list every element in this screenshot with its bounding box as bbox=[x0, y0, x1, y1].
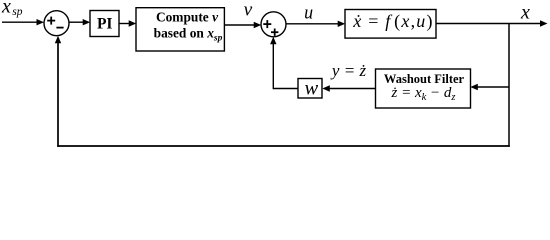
svg-text:ż = xk − dz: ż = xk − dz bbox=[390, 85, 455, 103]
svg-text:Compute v: Compute v bbox=[156, 9, 219, 24]
wire x branch into Washout Filter bbox=[470, 84, 509, 90]
svg-text:ẋ = f (x,u): ẋ = f (x,u) bbox=[352, 11, 433, 32]
wire S2 to plant block bbox=[286, 21, 345, 27]
summing junction S2 bbox=[261, 12, 286, 37]
node x_sp input label bbox=[1, 0, 23, 18]
block Washout Filter bbox=[376, 69, 471, 108]
wire input to summing junction S1 bbox=[2, 19, 44, 25]
summing junction S1 bbox=[44, 11, 69, 36]
junction on x line bbox=[508, 24, 510, 147]
wire PI to Compute block bbox=[119, 20, 136, 26]
svg-text:w: w bbox=[304, 78, 318, 100]
svg-text:x: x bbox=[1, 0, 11, 18]
block w bbox=[298, 78, 322, 100]
svg-text:y = ż: y = ż bbox=[330, 61, 367, 80]
svg-text:PI: PI bbox=[97, 16, 113, 33]
block PI bbox=[90, 11, 119, 37]
svg-text:x: x bbox=[520, 1, 530, 23]
svg-text:sp: sp bbox=[12, 6, 22, 18]
wire Washout to w block bbox=[322, 85, 375, 91]
wire plant to output x bbox=[436, 20, 548, 26]
svg-text:v: v bbox=[244, 1, 253, 21]
block plant xdot = f(x,u) bbox=[345, 10, 436, 39]
wire Compute to summing junction S2 bbox=[224, 22, 261, 28]
svg-text:Washout Filter: Washout Filter bbox=[384, 72, 465, 86]
svg-text:u: u bbox=[304, 4, 313, 24]
wire w to summing junction S2 (feedback up) bbox=[270, 37, 298, 89]
wire outer feedback loop to S1 bbox=[55, 36, 510, 147]
svg-text:based on xsp: based on xsp bbox=[154, 25, 223, 43]
block Compute v based on x_sp bbox=[136, 8, 224, 51]
wire S1 to PI bbox=[69, 19, 90, 25]
